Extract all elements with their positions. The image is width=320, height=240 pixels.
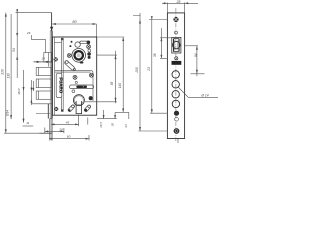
hole ring 4 <box>172 100 179 107</box>
right cluster small ring <box>88 49 91 52</box>
svg-text:230: 230 <box>1 69 5 76</box>
vertical channel lower <box>61 109 63 111</box>
small hole <box>175 31 178 34</box>
screw below divider right <box>89 73 93 77</box>
channel top cap <box>61 38 64 40</box>
prong arrow line <box>32 81 34 91</box>
dim 140 vertical mid <box>122 37 124 112</box>
ext roller top <box>160 37 172 39</box>
svg-text:36: 36 <box>153 53 157 57</box>
bottom dim row 1 <box>51 123 79 125</box>
small ring beside capsule <box>73 68 75 70</box>
svg-text:23: 23 <box>147 67 151 72</box>
roller circle <box>173 41 180 48</box>
plate screw top <box>54 57 58 61</box>
dim 230 vertical far left <box>5 13 7 134</box>
faceplate edge view <box>50 31 52 119</box>
svg-text:85: 85 <box>110 82 114 86</box>
bottom ext verticals from plate <box>49 119 51 141</box>
deadbolt prong 1 <box>36 67 51 75</box>
diagonal capsule mid <box>64 60 75 71</box>
ring at diag capsule top <box>65 61 68 64</box>
bottom screw <box>174 128 180 134</box>
small dim line low <box>23 125 34 127</box>
light dot in slider <box>83 86 84 87</box>
screw below divider left <box>73 75 77 79</box>
screw left of hub <box>67 54 71 58</box>
ext latch tip <box>44 128 46 134</box>
deadbolt prong 2 <box>36 79 51 88</box>
ext top screw <box>149 19 167 21</box>
ext ring1 <box>160 57 167 59</box>
dim o14 vertical left <box>23 87 25 91</box>
ext hub to 85 <box>97 54 117 56</box>
ext line 230 bottom <box>4 132 40 134</box>
svg-text:11: 11 <box>26 121 29 125</box>
dim 80 arrows <box>52 23 97 25</box>
dim 84 right of plate <box>196 46 198 77</box>
cylinder hole circle <box>73 95 84 106</box>
svg-text:80: 80 <box>72 20 77 24</box>
svg-text:16,5: 16,5 <box>99 122 103 128</box>
svg-text:140: 140 <box>118 83 122 89</box>
svg-text:200: 200 <box>135 67 139 74</box>
plate screw bottom <box>54 107 58 111</box>
dark dot at left diag slot bottom <box>68 109 70 111</box>
dim 28 top <box>166 3 168 13</box>
dim small left mid <box>23 70 25 123</box>
right cluster cross screw <box>87 45 91 49</box>
ring at left diag slot top <box>72 105 75 108</box>
svg-text:Ø14: Ø14 <box>6 110 10 117</box>
leader line o14 <box>178 87 218 97</box>
svg-text:Ø14: Ø14 <box>17 88 21 95</box>
ext ring A right <box>191 73 205 75</box>
dim 26 stepped leader <box>31 35 45 53</box>
bottom dim row 2 <box>45 130 64 132</box>
tick at 128.6 <box>128 112 130 119</box>
divider second line <box>55 71 91 73</box>
dark dot lower <box>69 45 71 47</box>
dark dot upper <box>71 41 73 43</box>
dark dash below hub <box>80 62 84 64</box>
dark slider in slot <box>76 86 87 88</box>
diagonal slot bottom-right <box>84 105 91 113</box>
svg-text:130: 130 <box>6 73 10 79</box>
hole ring 2 <box>172 81 179 88</box>
lower dark circle <box>174 111 179 116</box>
strike plate <box>167 13 184 139</box>
dim 85 vertical mid <box>115 51 117 104</box>
prong gap dim line <box>30 80 32 105</box>
svg-text:FUARO: FUARO <box>58 77 63 93</box>
right cluster dark 1 <box>87 52 91 56</box>
deadbolt prong 3 <box>36 91 51 99</box>
dim 80 ext right <box>96 24 98 37</box>
ext line top-left horizontal <box>16 12 52 14</box>
hole ring 1 <box>172 71 179 78</box>
top screw <box>173 17 178 22</box>
svg-text:45: 45 <box>66 120 70 124</box>
dim 200 left of plate <box>139 13 141 131</box>
ext dark segment to plate <box>40 132 52 134</box>
ext row c right <box>88 135 90 141</box>
dark circle at slot end <box>87 41 91 45</box>
small dim 20 below case <box>114 112 116 118</box>
plate centerline <box>175 8 177 141</box>
dim 130 vertical left <box>10 14 12 119</box>
svg-text:Ø 14: Ø 14 <box>200 93 208 97</box>
svg-text:24: 24 <box>41 57 46 61</box>
latch bevel line <box>47 53 49 62</box>
dim 54 vertical left <box>16 9 18 78</box>
ext small right <box>87 118 89 125</box>
cylinder slot below <box>76 101 82 114</box>
arrow down to plate top <box>50 27 53 32</box>
dark screw above right slot <box>89 97 92 100</box>
svg-text:20: 20 <box>111 123 115 128</box>
horizontal capsule slot lower <box>70 85 94 89</box>
ext vertical from cylinder bottom <box>78 115 80 127</box>
lock case <box>52 37 96 115</box>
ext below plate <box>177 139 179 144</box>
svg-text:54: 54 <box>12 48 16 52</box>
roller <box>173 39 179 52</box>
handle hub outer <box>72 49 86 63</box>
internal divider rounded <box>55 71 93 101</box>
case front flange line <box>54 37 56 115</box>
horizontal slot top <box>80 41 89 44</box>
handle hub dark ring <box>75 51 83 59</box>
ext bottom to 140 <box>115 111 129 113</box>
right cluster dark 2 <box>88 56 91 59</box>
vertical channel upper <box>61 38 63 111</box>
roller housing <box>172 37 181 53</box>
latch stub below <box>47 62 49 67</box>
ext roller center right <box>185 45 198 47</box>
small screw below roller <box>175 57 178 60</box>
svg-text:28: 28 <box>176 0 181 4</box>
dim 23 mid-left <box>151 16 153 113</box>
ext row b right <box>63 128 65 133</box>
FUARO label box <box>56 74 62 98</box>
ext tick top of dim 200 <box>133 14 141 16</box>
lower small ring <box>175 117 179 121</box>
ring at right diag slot top <box>88 105 91 108</box>
ext cyl to 85 <box>85 101 117 103</box>
black bar <box>172 61 182 65</box>
ring left of slot <box>75 42 80 47</box>
dim 80 line <box>52 23 97 25</box>
dark screw at right diag slot <box>85 109 88 112</box>
ext lower dark circle <box>150 112 167 114</box>
diagonal slot bottom-left <box>67 104 74 112</box>
latch bolt <box>44 53 51 62</box>
hole ring 3 <box>172 91 179 98</box>
dim 24 line <box>34 61 53 63</box>
internal line left of channel <box>55 42 62 44</box>
svg-text:23: 23 <box>124 124 128 129</box>
deadbolt bar lower <box>47 104 49 119</box>
ext line vertical above plate <box>51 13 53 31</box>
ext line under prongs <box>31 103 52 105</box>
ext line at slot bottom left <box>36 112 50 114</box>
svg-text:26: 26 <box>26 31 31 35</box>
svg-text:28: 28 <box>58 127 63 131</box>
svg-text:60: 60 <box>67 135 71 139</box>
hub square hole <box>77 54 81 58</box>
ext under case right <box>97 118 117 120</box>
ext case top to 140 <box>97 36 125 38</box>
bottom dim row 3 <box>49 138 89 140</box>
small dim 16.5 below case <box>103 110 105 119</box>
small ring below slot <box>72 90 75 93</box>
small ring above slot <box>75 81 77 83</box>
svg-text:84: 84 <box>194 53 198 57</box>
ext bottom screw <box>139 130 168 132</box>
arrow on dim 54 top <box>16 9 18 12</box>
dim 36 near plate <box>160 28 162 58</box>
